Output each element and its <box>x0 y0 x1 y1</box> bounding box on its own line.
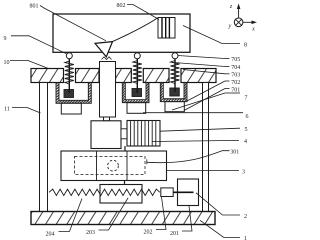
ball roller middle <box>134 53 140 59</box>
pedestal right <box>165 102 184 112</box>
pedestal left <box>61 103 81 114</box>
svg-text:9: 9 <box>4 36 7 42</box>
spring isolator middle : rod <box>136 59 138 93</box>
label 203 and leader <box>86 198 128 236</box>
svg-text:701: 701 <box>231 87 240 93</box>
label 8 and leader <box>183 26 247 49</box>
damper cup right <box>160 83 187 102</box>
plate 10 segment left-of-column <box>76 69 100 83</box>
label 202 and leader <box>144 197 167 236</box>
svg-text:705: 705 <box>231 57 240 63</box>
ball roller left <box>66 53 72 59</box>
motor box 2 <box>178 179 199 206</box>
spring isolator right : rod <box>174 59 176 92</box>
coordinate axes (z up, x right, y circle) <box>228 4 257 33</box>
svg-text:703: 703 <box>231 72 240 78</box>
coupling box 202 <box>161 188 173 197</box>
svg-text:11: 11 <box>4 107 10 113</box>
label 9 and leader <box>4 36 67 54</box>
label 201 and leader <box>170 206 192 237</box>
dashed inner box 301 <box>75 157 146 175</box>
mass block middle <box>132 89 142 97</box>
plate 10 segment right-mid <box>143 69 169 83</box>
svg-text:4: 4 <box>244 139 247 145</box>
horn curve inside box 8 <box>113 18 158 42</box>
label 6 and leader <box>143 113 249 120</box>
nozzle triangle inside box 8 <box>95 42 113 60</box>
plate 10 segment far-left <box>31 69 64 83</box>
screw shaft zigzag <box>49 189 160 195</box>
spring isolator middle : coil spring <box>133 61 142 84</box>
spring isolator left : coil spring <box>65 61 74 84</box>
svg-text:10: 10 <box>4 60 10 66</box>
svg-text:301: 301 <box>230 149 239 155</box>
spring isolator left : rod <box>68 59 70 93</box>
label 3 and leader <box>167 169 245 175</box>
svg-text:202: 202 <box>144 230 153 236</box>
top box 8 (shaker housing) <box>53 14 190 52</box>
label 301 and leader <box>147 149 240 164</box>
plate 10 segment mid <box>116 69 132 83</box>
dashed circle inside <box>108 160 119 171</box>
damper cup left <box>56 83 91 104</box>
connector rect3 to zigzag box <box>124 181 126 185</box>
connector between box5 and fins <box>121 129 127 139</box>
spring isolator right : coil spring <box>171 61 180 84</box>
svg-text:1: 1 <box>244 236 247 240</box>
label 2 and leader <box>196 193 247 220</box>
ball roller right <box>172 53 178 59</box>
svg-text:7: 7 <box>245 96 248 102</box>
label 10 and leader <box>4 60 50 69</box>
svg-text:y: y <box>228 24 232 30</box>
svg-text:802: 802 <box>117 3 126 9</box>
label 801 and leader <box>30 4 107 41</box>
mass block left <box>64 90 74 98</box>
left wall 11 <box>40 83 48 212</box>
svg-text:204: 204 <box>46 232 55 238</box>
svg-text:5: 5 <box>245 127 248 133</box>
coil box 802 <box>158 18 175 39</box>
svg-text:8: 8 <box>244 43 247 49</box>
finned box 4 (heat sink / stack) <box>127 121 160 147</box>
label 11 and leader <box>4 107 40 114</box>
svg-text:801: 801 <box>30 4 39 10</box>
pedestal middle <box>127 103 146 114</box>
neck connector under column <box>104 117 110 121</box>
mass block right <box>170 88 180 96</box>
big box 3 (base frame of instrument) <box>61 151 167 181</box>
damper cup middle <box>122 83 149 103</box>
label 4 and leader <box>153 139 248 145</box>
right wall <box>203 83 209 212</box>
label 204 and leader <box>46 199 83 238</box>
svg-text:201: 201 <box>170 231 179 237</box>
svg-text:6: 6 <box>246 114 249 120</box>
label 1 and leader <box>200 220 247 240</box>
column (vertical actuator rod) <box>100 62 116 118</box>
svg-text:203: 203 <box>86 230 95 236</box>
labels 705-701 and 7 with leaders <box>178 56 241 64</box>
svg-text:702: 702 <box>231 80 240 86</box>
svg-text:3: 3 <box>242 169 245 175</box>
motor shaft <box>173 191 193 193</box>
connector box5/fins to rect3 <box>124 146 126 151</box>
zigzag housing box 203 <box>100 185 142 204</box>
plate 10 segment far-right <box>181 69 216 83</box>
svg-text:704: 704 <box>231 65 240 71</box>
svg-text:2: 2 <box>244 214 247 220</box>
label 5 and leader <box>160 127 248 133</box>
box 5 (drive unit) <box>91 121 121 149</box>
svg-text:x: x <box>251 27 255 33</box>
base 1 <box>31 212 215 225</box>
label 802 and leader <box>117 3 160 20</box>
